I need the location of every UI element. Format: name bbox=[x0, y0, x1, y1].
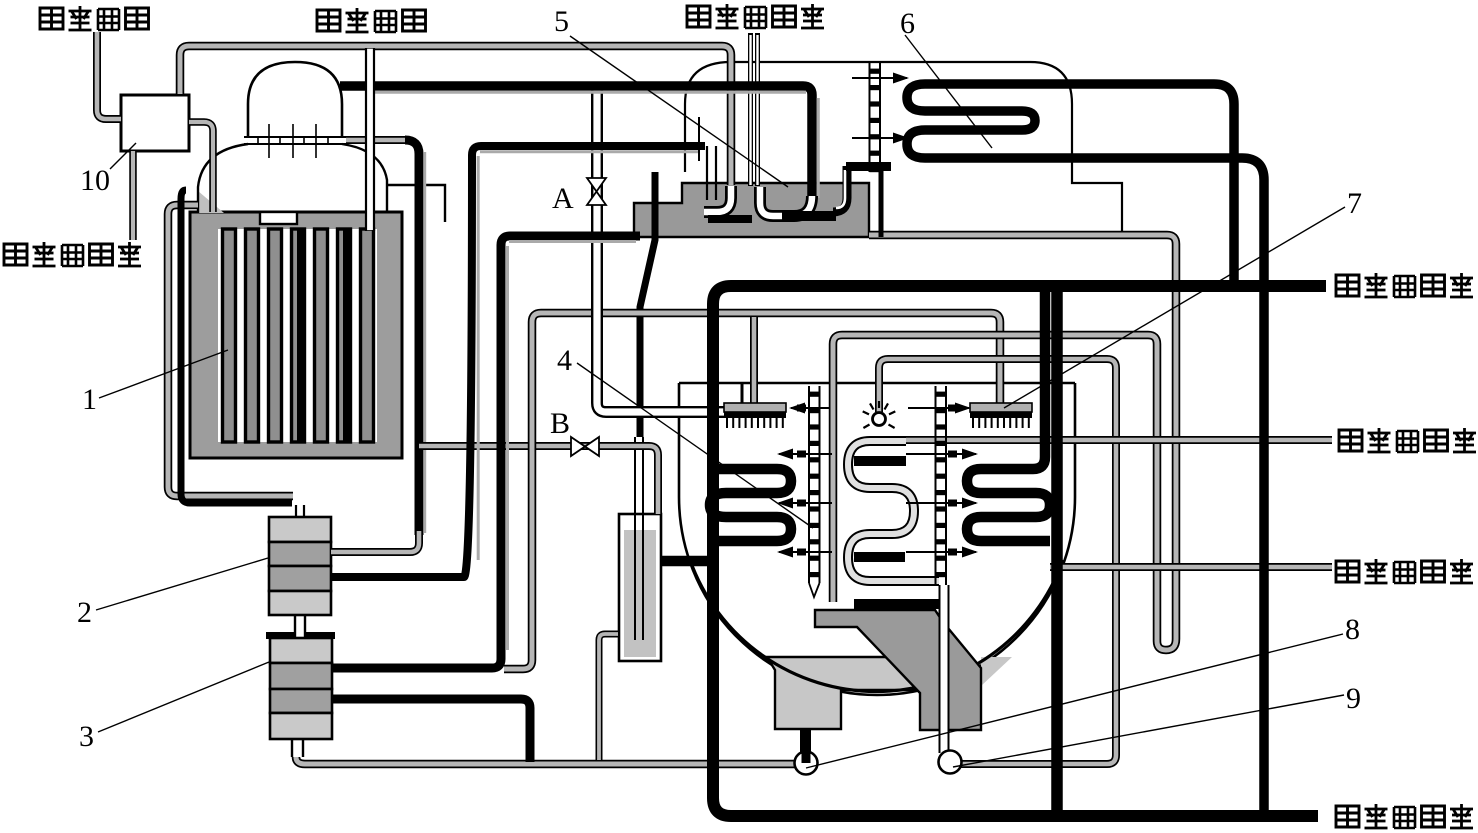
burner flange hatch bbox=[244, 137, 346, 144]
leader to 3 bbox=[98, 662, 269, 732]
leader to 6 bbox=[905, 35, 992, 148]
connector below HX 3 bbox=[292, 739, 303, 757]
svg-text:10: 10 bbox=[80, 164, 110, 197]
label chilled-hot-water inlet 冷热水进口 bbox=[1336, 559, 1473, 584]
heating-water inlet pipe bbox=[129, 151, 137, 240]
vapor arrow right 2 bbox=[906, 502, 976, 504]
spray header 7 (left) bbox=[724, 403, 786, 412]
label cooling-water outlet 冷却水出口 bbox=[1336, 273, 1473, 298]
svg-text:8: 8 bbox=[1345, 613, 1360, 646]
cylinder outlet pipe bbox=[599, 634, 618, 760]
label flue-gas outlet 烟气出口 bbox=[40, 6, 149, 31]
left sump drain stub bbox=[800, 730, 811, 764]
label cooling-water inlet 冷却水进口 bbox=[1336, 804, 1473, 829]
vessel bottom arc over pools bbox=[690, 560, 1063, 692]
generator 1: top notch bbox=[260, 212, 297, 224]
vapor arrow right 3 bbox=[906, 551, 976, 553]
svg-text:6: 6 bbox=[900, 7, 915, 40]
comp5 left partition line bbox=[698, 117, 700, 161]
drop pipe to left spray header bbox=[750, 317, 758, 404]
vessel shell: lower drum outline bbox=[679, 383, 1075, 695]
flue flow arrow top 2 bbox=[852, 137, 907, 139]
solution pump discharge to spray nozzle bbox=[879, 359, 1116, 764]
svg-text:9: 9 bbox=[1346, 682, 1361, 715]
svg-text:2: 2 bbox=[77, 596, 92, 629]
leader to 7 bbox=[1004, 207, 1345, 408]
leader to 2 bbox=[96, 558, 268, 610]
evaporator chilled-water coil bbox=[848, 441, 939, 581]
hanger line above left header bbox=[741, 384, 744, 403]
generator 1: fire-tube bank bbox=[223, 229, 374, 442]
leader to 5 bbox=[570, 36, 788, 187]
leader to 10 bbox=[110, 143, 136, 169]
connector between HX 2 and 3 bbox=[295, 615, 305, 639]
absorber serpentine coil right bbox=[967, 291, 1050, 541]
generator 1: high-temperature generator shell (gray body) bbox=[190, 212, 402, 458]
valve A bbox=[587, 178, 606, 205]
solution pool (light gray) in left sump bbox=[767, 657, 918, 729]
refrigerant pool surface right of chute bbox=[981, 657, 1012, 686]
vapor arrow right 1 bbox=[906, 453, 976, 455]
intermediate solution loop comp5 to chute drop tube bbox=[833, 235, 1176, 650]
arrow ladder tick marks bbox=[797, 405, 957, 556]
siphon discharge bar to downcomer bbox=[846, 162, 891, 171]
svg-text:1: 1 bbox=[82, 383, 97, 416]
chilled-hot water inlet pipe bbox=[1050, 563, 1332, 571]
comp5 left feed drop bbox=[707, 146, 716, 200]
upper shell (condenser casing) outline bbox=[685, 62, 1122, 233]
valve B bbox=[571, 437, 599, 456]
refrigerant pump elbow 8 bbox=[795, 752, 818, 775]
svg-text:7: 7 bbox=[1347, 187, 1362, 220]
vapor arrow left 3 bbox=[779, 551, 832, 553]
vapor arrow left 2 bbox=[779, 502, 832, 504]
svg-text:5: 5 bbox=[554, 5, 569, 38]
vapor line to comp5 U-tube bbox=[340, 86, 812, 200]
refrigerant line through valve B into cylinder top bbox=[419, 446, 658, 514]
solution spray line to right spray header bbox=[504, 313, 1000, 669]
eliminator ladder column left (between evaporator and absorber) bbox=[809, 386, 820, 583]
solution line into HX2 bbox=[331, 531, 419, 552]
shading wedge left of dome bbox=[198, 191, 224, 213]
flue-gas duct box10 to recovery section bbox=[180, 46, 731, 185]
refrigerant line through valve A to left spray bbox=[597, 90, 724, 412]
chilled-hot water outlet pipe bbox=[906, 436, 1332, 444]
solution chute (dark gray) to solution pump bbox=[815, 610, 981, 730]
solution line from dome flange bbox=[346, 136, 409, 144]
refrigerant storage cylinder bbox=[619, 514, 661, 661]
evaporator coil shade bars bbox=[854, 456, 906, 466]
label heating-water inlet 加热水进口 bbox=[4, 242, 141, 267]
generator weak solution line to HX2 bbox=[168, 205, 293, 496]
flue-gas inlet duct into dome bbox=[367, 49, 373, 230]
right ladder drop pipe to chute and pump suction bbox=[941, 585, 948, 753]
component 2: high-temperature heat exchanger bbox=[269, 517, 331, 615]
svg-text:B: B bbox=[550, 407, 570, 440]
pipe box10 to generator top bbox=[189, 122, 213, 212]
HX2 top stub bbox=[296, 505, 304, 518]
vapor arrow to right header bbox=[908, 407, 969, 409]
leader to 4 bbox=[577, 363, 813, 528]
component 3: low-temperature heat exchanger bbox=[270, 638, 332, 739]
evaporator outlet stub left bbox=[660, 556, 713, 567]
comp5 U-tube 2 (steam side) bbox=[760, 187, 812, 216]
label flue-gas inlet 烟气进口 bbox=[317, 8, 426, 33]
solution return line HX3 to pump bbox=[296, 757, 795, 764]
black solution line to HX2 top bbox=[181, 190, 292, 503]
HX2 strong solution line up-and-over to comp5 left bbox=[331, 146, 705, 577]
comp5 siphon elbow bbox=[833, 166, 847, 212]
svg-text:4: 4 bbox=[557, 344, 572, 377]
comp5 U-tube 1 (flue side) bbox=[704, 186, 731, 212]
generator upper dome outline bbox=[198, 144, 445, 222]
eliminator ladder column right bbox=[936, 386, 947, 585]
HX3 line up to slab-bottom header bbox=[332, 236, 640, 668]
refrigerant spray nozzle bbox=[873, 413, 886, 426]
spray header 7 (right) bbox=[970, 403, 1032, 412]
vapor arrow left 1 bbox=[779, 453, 832, 455]
dip tube inside cylinder bbox=[635, 437, 643, 640]
HX3 top flange bars bbox=[266, 632, 294, 639]
label chilled-hot-water outlet 冷热水出口 bbox=[1339, 428, 1476, 453]
burner dome on generator bbox=[248, 62, 342, 137]
solution pump elbow 9 bbox=[939, 751, 962, 774]
flue distribution ladder column (right of comp5) bbox=[870, 63, 881, 172]
absorber serpentine coil left bbox=[710, 469, 791, 541]
label heating-water outlet 加热水出口 bbox=[687, 4, 824, 29]
flue-gas outlet pipe bbox=[97, 32, 121, 119]
leader to 9 bbox=[953, 695, 1344, 767]
flue flow arrow top 1 bbox=[852, 77, 907, 79]
component 5: flue-gas heat-recovery generator (gray slab) bbox=[634, 183, 869, 237]
cooling water riser inside vessel bbox=[1051, 291, 1063, 814]
vapor arrow to left header bbox=[791, 407, 830, 409]
svg-text:A: A bbox=[552, 182, 574, 215]
cooling water loop: outlet top, inlet bottom bbox=[713, 286, 1326, 816]
leader to 8 bbox=[806, 634, 1343, 768]
HX3 lower line down to solution return bbox=[332, 699, 530, 762]
svg-text:3: 3 bbox=[79, 720, 94, 753]
leader to 1 bbox=[99, 350, 228, 398]
condenser coil 6 and cooling-water risers bbox=[907, 84, 1264, 816]
drain pipe comp5 chamber down to cylinder bbox=[640, 172, 655, 437]
solution downcomer right of generator bbox=[405, 140, 419, 535]
component 10: flue-gas box / economizer bbox=[121, 95, 189, 151]
heating-water outlet pipes bbox=[751, 33, 758, 186]
